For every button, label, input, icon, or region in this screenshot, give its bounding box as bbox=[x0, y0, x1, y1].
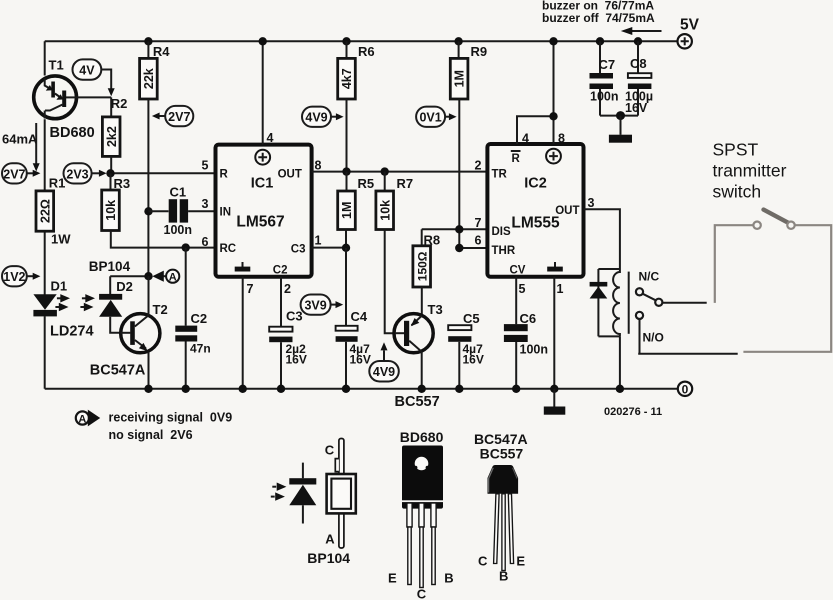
svg-text:switch: switch bbox=[713, 182, 762, 202]
relay coil bbox=[598, 269, 628, 393]
svg-text:C2: C2 bbox=[191, 311, 208, 326]
svg-text:RC: RC bbox=[220, 243, 237, 255]
BC547A/BC557 package TO-92 bbox=[474, 431, 528, 584]
svg-text:E: E bbox=[388, 571, 397, 586]
BP104 package: photodiode symbol bbox=[271, 463, 317, 524]
svg-text:BD680: BD680 bbox=[400, 429, 444, 445]
svg-text:OUT: OUT bbox=[278, 169, 302, 181]
IC1 pin number labels bbox=[202, 131, 322, 296]
text buzzer current annotation bbox=[542, 0, 655, 25]
text legend receiving/no signal bbox=[109, 411, 233, 442]
svg-text:A: A bbox=[325, 532, 335, 547]
svg-text:DIS: DIS bbox=[492, 226, 512, 238]
wire IC1 pin8 OUT to IC2 pin2 TR bbox=[312, 171, 488, 173]
resistor R6 4k7 bbox=[338, 37, 375, 172]
svg-text:6: 6 bbox=[202, 235, 209, 249]
transistor T2 BC547A bbox=[90, 276, 168, 393]
svg-text:C: C bbox=[325, 443, 335, 458]
transistor T3 BC557 bbox=[394, 302, 443, 410]
svg-text:8: 8 bbox=[558, 132, 565, 146]
resistor R8 150ohm bbox=[413, 229, 440, 316]
svg-text:D2: D2 bbox=[116, 279, 133, 294]
diode D2 BP104 photodiode bbox=[80, 259, 133, 333]
svg-text:2k2: 2k2 bbox=[105, 126, 119, 147]
svg-text:1V2: 1V2 bbox=[3, 270, 25, 284]
svg-text:THR: THR bbox=[492, 245, 516, 257]
wire bottom 0V rail bbox=[45, 388, 678, 390]
svg-text:C3: C3 bbox=[291, 244, 306, 256]
node junction OUT line R7 bbox=[381, 167, 389, 175]
wire DIS line with R8 branch bbox=[422, 225, 488, 233]
svg-text:E: E bbox=[516, 554, 525, 569]
svg-text:BC547A: BC547A bbox=[90, 362, 146, 378]
svg-text:1: 1 bbox=[557, 282, 564, 296]
capacitor C6 100n bbox=[504, 277, 548, 393]
svg-text:1W: 1W bbox=[51, 232, 71, 247]
svg-text:4V: 4V bbox=[79, 64, 95, 78]
resistor R1 22ohm 1W bbox=[36, 176, 71, 247]
resistor R5 1M bbox=[338, 172, 374, 252]
diode freewheeling across relay coil bbox=[590, 282, 608, 299]
svg-text:4k7: 4k7 bbox=[340, 68, 354, 89]
node 2V7 oval left edge bbox=[2, 163, 40, 183]
svg-text:16V: 16V bbox=[286, 353, 307, 367]
svg-text:7: 7 bbox=[247, 282, 254, 296]
svg-text:2V3: 2V3 bbox=[66, 167, 88, 181]
svg-text:C7: C7 bbox=[599, 57, 616, 72]
svg-text:4: 4 bbox=[267, 131, 274, 145]
svg-text:receiving signal 0V9: receiving signal 0V9 bbox=[109, 411, 233, 425]
svg-text:LM567: LM567 bbox=[236, 213, 284, 230]
svg-text:1: 1 bbox=[315, 234, 322, 248]
node A label symbol bbox=[152, 270, 179, 284]
svg-text:LD274: LD274 bbox=[50, 323, 94, 339]
svg-text:IN: IN bbox=[220, 207, 232, 219]
svg-text:B: B bbox=[444, 571, 453, 586]
svg-text:R: R bbox=[512, 153, 521, 165]
node A wire (R4 bottom / D2 / T2 collector) bbox=[110, 272, 153, 294]
svg-text:2: 2 bbox=[475, 159, 482, 173]
svg-text:R4: R4 bbox=[153, 44, 170, 59]
svg-text:5: 5 bbox=[202, 159, 209, 173]
svg-text:LM555: LM555 bbox=[511, 215, 560, 232]
svg-text:16V: 16V bbox=[350, 353, 371, 367]
svg-text:1M: 1M bbox=[340, 202, 354, 219]
svg-text:IC2: IC2 bbox=[524, 176, 547, 192]
svg-text:5V: 5V bbox=[680, 17, 700, 34]
relay contact N/O bbox=[636, 312, 738, 354]
svg-text:A: A bbox=[169, 272, 177, 284]
svg-text:BD680: BD680 bbox=[50, 125, 95, 141]
ground below C7/C8 bbox=[609, 135, 632, 143]
svg-text:4: 4 bbox=[522, 132, 529, 146]
wire IC2 pins 4 and 8 to top rail bbox=[517, 37, 558, 144]
svg-text:C8: C8 bbox=[630, 56, 647, 71]
svg-text:T2: T2 bbox=[153, 302, 168, 317]
resistor R4 22k bbox=[140, 37, 171, 276]
svg-text:100n: 100n bbox=[590, 90, 619, 104]
svg-text:BP104: BP104 bbox=[89, 259, 131, 274]
wire IC1 pin1 C3 to R5 bottom bbox=[312, 247, 346, 249]
node A legend symbol bbox=[76, 410, 100, 427]
svg-text:C2: C2 bbox=[273, 265, 288, 277]
svg-text:7: 7 bbox=[475, 216, 482, 230]
svg-text:no signal 2V6: no signal 2V6 bbox=[109, 428, 193, 442]
svg-text:6: 6 bbox=[475, 234, 482, 248]
svg-text:SPST: SPST bbox=[713, 140, 759, 160]
svg-text:C4: C4 bbox=[351, 309, 368, 324]
svg-text:BC557: BC557 bbox=[480, 446, 524, 462]
svg-text:020276 - 11: 020276 - 11 bbox=[604, 406, 662, 418]
wire IC2 pin1 to rail and ground bbox=[550, 277, 558, 407]
svg-text:R1: R1 bbox=[49, 176, 66, 191]
terminal 0V circle bbox=[678, 382, 692, 397]
svg-text:150Ω: 150Ω bbox=[415, 251, 429, 281]
svg-text:C1: C1 bbox=[170, 185, 187, 200]
svg-text:10k: 10k bbox=[378, 200, 392, 221]
supply arrow pointing left bbox=[621, 27, 662, 35]
IC2 pin number labels bbox=[475, 132, 595, 297]
node 4V9 oval lower with up arrow bbox=[369, 342, 399, 381]
svg-text:2V7: 2V7 bbox=[3, 167, 25, 181]
svg-text:22Ω: 22Ω bbox=[38, 199, 52, 223]
svg-text:5: 5 bbox=[519, 282, 526, 296]
wire C7/C8 junction and ground bbox=[600, 111, 638, 135]
transistor T1 BD680 bbox=[34, 58, 95, 142]
wire node 2V3 to IC1 pin5 bbox=[111, 172, 216, 174]
node 3V9 oval bbox=[301, 295, 344, 315]
svg-text:C: C bbox=[478, 554, 488, 569]
node junction R2/R3 bbox=[106, 169, 114, 177]
svg-text:T3: T3 bbox=[428, 302, 443, 317]
svg-text:BC547A: BC547A bbox=[474, 431, 528, 447]
svg-text:R9: R9 bbox=[471, 44, 488, 59]
node 4V9 oval upper bbox=[302, 107, 344, 127]
node 0V1 oval bbox=[416, 107, 457, 127]
wire THR line bbox=[455, 244, 487, 252]
text SPST transmitter switch bbox=[713, 140, 787, 202]
IC2 LM555 bbox=[487, 144, 583, 277]
node 4V measurement oval bbox=[73, 59, 115, 96]
supply 5V terminal bbox=[678, 17, 700, 49]
resistor R2 2k2 bbox=[102, 96, 127, 174]
capacitor C5 4u7 16V electrolytic bbox=[448, 311, 484, 393]
BD680 package TO-126 bbox=[388, 429, 454, 600]
svg-text:R8: R8 bbox=[424, 233, 441, 248]
capacitor C7 100n bbox=[590, 37, 619, 116]
svg-text:3V9: 3V9 bbox=[304, 299, 326, 313]
BP104 package: body and lead bbox=[307, 439, 356, 566]
wire IC2 OUT pin3 to relay bbox=[584, 209, 620, 269]
svg-text:3: 3 bbox=[588, 196, 595, 210]
svg-text:3: 3 bbox=[202, 197, 209, 211]
svg-text:22k: 22k bbox=[142, 68, 156, 89]
svg-text:R7: R7 bbox=[397, 176, 414, 191]
svg-text:R: R bbox=[220, 169, 229, 181]
svg-text:N/C: N/C bbox=[639, 270, 660, 284]
svg-text:1M: 1M bbox=[453, 70, 467, 87]
SPST switch symbol gray bbox=[715, 210, 831, 352]
svg-text:tranmitter: tranmitter bbox=[713, 161, 787, 181]
svg-text:R2: R2 bbox=[111, 96, 128, 111]
svg-text:C5: C5 bbox=[463, 311, 480, 326]
svg-text:16V: 16V bbox=[463, 353, 484, 367]
capacitor C3 2u2 16V electrolytic bbox=[269, 277, 307, 393]
svg-text:10k: 10k bbox=[104, 200, 118, 221]
svg-text:BP104: BP104 bbox=[307, 550, 350, 566]
svg-text:0V1: 0V1 bbox=[419, 111, 441, 125]
resistor R7 10k bbox=[376, 172, 413, 334]
wire IC1 pin7 to rail bbox=[239, 277, 247, 393]
svg-text:CV: CV bbox=[510, 265, 526, 277]
capacitor C8 100u 16V electrolytic bbox=[625, 37, 653, 116]
wire IC1 pin4 to top rail bbox=[259, 37, 267, 145]
svg-text:16V: 16V bbox=[625, 101, 648, 115]
svg-text:IC1: IC1 bbox=[251, 176, 274, 192]
wire top +5V rail bbox=[45, 40, 678, 42]
node 1V2 oval bbox=[2, 266, 40, 286]
svg-text:TR: TR bbox=[492, 169, 508, 181]
svg-text:R6: R6 bbox=[358, 44, 375, 59]
svg-text:buzzer off 74/75mA: buzzer off 74/75mA bbox=[542, 11, 655, 25]
svg-text:8: 8 bbox=[315, 159, 322, 173]
diode D1 LD274 LED bbox=[33, 279, 93, 340]
svg-text:B: B bbox=[499, 569, 508, 584]
node 2V7 oval right of R4 bbox=[152, 106, 193, 126]
svg-text:100n: 100n bbox=[164, 223, 193, 237]
svg-text:C6: C6 bbox=[520, 311, 537, 326]
text circuit number 020276-11 bbox=[604, 406, 662, 418]
svg-text:C3: C3 bbox=[286, 309, 303, 324]
resistor R3 10k bbox=[102, 173, 216, 247]
wire left vertical T1 column bbox=[44, 41, 46, 389]
svg-text:A: A bbox=[78, 413, 86, 425]
svg-text:BC557: BC557 bbox=[395, 394, 440, 410]
svg-text:N/O: N/O bbox=[643, 331, 664, 345]
capacitor C1 100n bbox=[144, 185, 215, 237]
node junction OUT line R6/R5 bbox=[342, 167, 350, 175]
svg-text:47n: 47n bbox=[190, 342, 211, 356]
capacitor C4 4u7 16V electrolytic bbox=[336, 248, 371, 393]
ground below IC2 pin1 bbox=[544, 407, 566, 415]
current label 64mA with down arrow bbox=[2, 123, 40, 172]
svg-text:2V7: 2V7 bbox=[168, 110, 190, 124]
svg-text:R5: R5 bbox=[358, 176, 375, 191]
svg-text:C: C bbox=[417, 587, 427, 600]
node 2V3 oval bbox=[64, 163, 107, 183]
wire T1 base to R2 top bbox=[77, 96, 111, 98]
svg-text:64mA: 64mA bbox=[2, 132, 38, 147]
svg-text:0: 0 bbox=[682, 382, 689, 396]
svg-text:100n: 100n bbox=[520, 343, 549, 357]
relay contact N/C bbox=[636, 270, 707, 306]
svg-text:D1: D1 bbox=[51, 279, 68, 294]
svg-text:T1: T1 bbox=[49, 58, 64, 73]
svg-text:2: 2 bbox=[284, 282, 291, 296]
capacitor C2 47n bbox=[175, 243, 210, 393]
svg-text:R3: R3 bbox=[114, 176, 131, 191]
svg-text:4V9: 4V9 bbox=[305, 111, 327, 125]
resistor R9 1M bbox=[450, 37, 487, 248]
svg-text:4V9: 4V9 bbox=[373, 365, 395, 379]
IC1 LM567 bbox=[216, 145, 312, 277]
